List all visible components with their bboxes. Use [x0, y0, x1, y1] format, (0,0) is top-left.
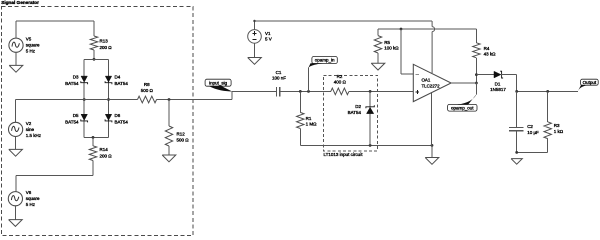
svg-text:D4: D4: [115, 75, 121, 80]
svg-text:D3: D3: [73, 75, 79, 80]
svg-text:D5: D5: [73, 113, 79, 118]
svg-text:1.5 kHz: 1.5 kHz: [26, 133, 42, 138]
svg-text:500 Ω: 500 Ω: [177, 138, 190, 143]
svg-text:200 Ω: 200 Ω: [100, 45, 113, 50]
svg-text:1 kΩ: 1 kΩ: [554, 129, 564, 134]
svg-text:500 Ω: 500 Ω: [141, 88, 154, 93]
svg-text:100 nF: 100 nF: [272, 76, 286, 81]
svg-text:R12: R12: [177, 132, 186, 137]
svg-text:5 V: 5 V: [265, 37, 272, 42]
svg-text:BAT54: BAT54: [115, 120, 129, 125]
svg-text:R1: R1: [306, 116, 312, 121]
svg-text:V1: V1: [265, 31, 271, 36]
svg-text:input_sig: input_sig: [209, 80, 228, 85]
svg-text:square: square: [26, 43, 40, 48]
svg-text:Output: Output: [583, 80, 597, 85]
svg-text:5 Hz: 5 Hz: [26, 48, 36, 53]
svg-text:43 kΩ: 43 kΩ: [484, 52, 497, 57]
svg-text:R2: R2: [337, 74, 343, 79]
svg-text:1N5817: 1N5817: [490, 87, 506, 92]
svg-text:D1: D1: [495, 81, 501, 86]
svg-text:V5: V5: [26, 37, 32, 42]
svg-text:R13: R13: [100, 39, 109, 44]
svg-text:Signal Generator: Signal Generator: [1, 0, 39, 5]
svg-text:D2: D2: [355, 104, 361, 109]
svg-text:5 Hz: 5 Hz: [26, 202, 36, 207]
svg-text:D6: D6: [115, 113, 121, 118]
svg-text:200 Ω: 200 Ω: [100, 153, 113, 158]
svg-text:R4: R4: [484, 46, 490, 51]
svg-text:400 Ω: 400 Ω: [334, 80, 347, 85]
svg-text:LT1013 input circuit: LT1013 input circuit: [324, 152, 364, 157]
svg-text:1 MΩ: 1 MΩ: [306, 122, 318, 127]
svg-text:BAT54: BAT54: [115, 81, 129, 86]
svg-text:R8: R8: [144, 82, 150, 87]
svg-text:BAT54: BAT54: [348, 110, 362, 115]
svg-text:R5: R5: [384, 40, 390, 45]
svg-text:10 µF: 10 µF: [527, 130, 539, 135]
svg-text:C2: C2: [527, 124, 533, 129]
svg-text:sine: sine: [26, 127, 35, 132]
svg-text:V2: V2: [26, 121, 32, 126]
svg-text:opamp_out: opamp_out: [451, 105, 474, 110]
svg-text:BAT54: BAT54: [65, 120, 79, 125]
svg-text:R14: R14: [100, 147, 109, 152]
svg-text:OA1: OA1: [422, 77, 431, 82]
svg-text:V6: V6: [26, 190, 32, 195]
svg-text:C1: C1: [276, 70, 282, 75]
svg-text:TLC2272: TLC2272: [422, 83, 441, 88]
svg-text:BAT54: BAT54: [65, 81, 79, 86]
svg-text:R3: R3: [554, 123, 560, 128]
svg-text:square: square: [26, 196, 40, 201]
svg-text:opamp_in: opamp_in: [315, 58, 335, 63]
svg-text:100 kΩ: 100 kΩ: [384, 46, 399, 51]
